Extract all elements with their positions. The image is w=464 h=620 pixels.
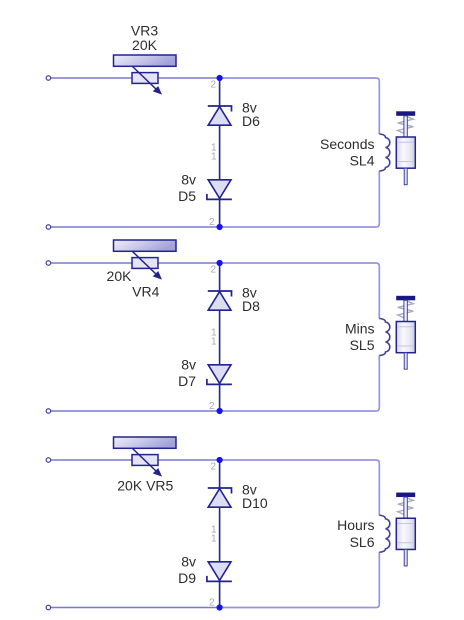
wire: right edge above coil bbox=[378, 81, 380, 134]
variable resistor VR3 (20K preset) bbox=[114, 55, 177, 95]
wire: bottom rail corner to junction bbox=[220, 224, 380, 227]
terminal pin (top left) bbox=[46, 458, 51, 463]
wire: top rail junction to top-right corner bbox=[220, 460, 380, 463]
svg-text:D6: D6 bbox=[242, 113, 260, 129]
svg-text:VR4: VR4 bbox=[132, 283, 159, 299]
solenoid SL4 actuator picture bbox=[396, 111, 415, 184]
terminal pin (bottom left) bbox=[46, 409, 51, 414]
svg-text:20K: 20K bbox=[132, 37, 158, 53]
wire: top rail junction to top-right corner bbox=[220, 263, 380, 266]
svg-text:1: 1 bbox=[211, 534, 217, 545]
node junction (bottom, pin 2) bbox=[217, 408, 223, 414]
svg-text:2: 2 bbox=[209, 598, 215, 609]
wire: bottom rail from junction to terminal bbox=[51, 607, 220, 609]
svg-text:SL6: SL6 bbox=[350, 534, 375, 550]
variable resistor VR5 (20K preset) bbox=[114, 437, 177, 477]
terminal pin (bottom left) bbox=[46, 605, 51, 610]
wire: vertical lead through diode chain bbox=[219, 78, 221, 227]
wire: bottom rail from junction to terminal bbox=[51, 410, 220, 412]
zener diode D7 (cathode down) bbox=[207, 365, 232, 385]
wire: right edge below coil bbox=[378, 171, 380, 224]
svg-text:SL4: SL4 bbox=[350, 153, 375, 169]
svg-text:20K: 20K bbox=[107, 268, 133, 284]
svg-text:Seconds: Seconds bbox=[320, 136, 374, 152]
svg-text:1: 1 bbox=[211, 337, 217, 348]
wire: top rail from terminal to junction bbox=[51, 77, 220, 79]
inductor coil of solenoid SL4 bbox=[379, 134, 390, 171]
variable resistor VR4 (20K preset) bbox=[114, 240, 177, 280]
svg-text:2: 2 bbox=[209, 401, 215, 412]
svg-text:D10: D10 bbox=[242, 495, 268, 511]
terminal pin (top left) bbox=[46, 76, 51, 81]
wire: vertical lead through diode chain bbox=[219, 263, 221, 411]
node junction (top, pin 2) bbox=[217, 457, 223, 463]
inductor coil of solenoid SL5 bbox=[379, 319, 390, 356]
wire: right edge above coil bbox=[378, 463, 380, 515]
svg-text:D5: D5 bbox=[178, 188, 196, 204]
wire: top rail from terminal to junction bbox=[51, 459, 220, 461]
svg-text:D9: D9 bbox=[178, 570, 196, 586]
svg-text:Hours: Hours bbox=[337, 517, 374, 533]
node junction (top, pin 2) bbox=[217, 75, 223, 81]
wire: right edge below coil bbox=[378, 552, 380, 604]
terminal pin (top left) bbox=[46, 261, 51, 266]
svg-text:8v: 8v bbox=[181, 554, 196, 570]
svg-text:2: 2 bbox=[210, 462, 216, 473]
svg-text:2: 2 bbox=[209, 217, 215, 228]
wire: top rail junction to top-right corner bbox=[220, 78, 380, 81]
zener diode D10 (cathode up) bbox=[208, 488, 232, 507]
wire: vertical lead through diode chain bbox=[219, 460, 221, 608]
wire: bottom rail corner to junction bbox=[220, 604, 380, 607]
wire: top rail from terminal to junction bbox=[51, 262, 220, 264]
svg-text:SL5: SL5 bbox=[350, 337, 375, 353]
node junction (bottom, pin 2) bbox=[217, 604, 223, 610]
wire: right edge above coil bbox=[378, 266, 380, 318]
zener diode D8 (cathode up) bbox=[208, 291, 232, 310]
node junction (bottom, pin 2) bbox=[217, 224, 223, 230]
node junction (top, pin 2) bbox=[217, 260, 223, 266]
wire: bottom rail from junction to terminal bbox=[51, 226, 220, 228]
svg-text:20K VR5: 20K VR5 bbox=[117, 478, 173, 494]
zener diode D6 (cathode up) bbox=[208, 106, 232, 125]
svg-text:2: 2 bbox=[210, 265, 216, 276]
zener diode D5 (cathode down) bbox=[207, 180, 232, 200]
zener diode D9 (cathode down) bbox=[207, 562, 232, 582]
svg-text:1: 1 bbox=[211, 152, 217, 163]
solenoid SL6 actuator picture bbox=[396, 493, 415, 566]
wire: right edge below coil bbox=[378, 356, 380, 408]
solenoid SL5 actuator picture bbox=[396, 296, 415, 369]
terminal pin (bottom left) bbox=[46, 225, 51, 230]
svg-text:2: 2 bbox=[210, 80, 216, 91]
wire: bottom rail corner to junction bbox=[220, 408, 380, 411]
inductor coil of solenoid SL6 bbox=[379, 515, 390, 552]
svg-text:D7: D7 bbox=[178, 373, 196, 389]
svg-text:Mins: Mins bbox=[345, 320, 375, 336]
svg-text:D8: D8 bbox=[242, 298, 260, 314]
svg-text:8v: 8v bbox=[181, 172, 196, 188]
svg-text:8v: 8v bbox=[181, 357, 196, 373]
